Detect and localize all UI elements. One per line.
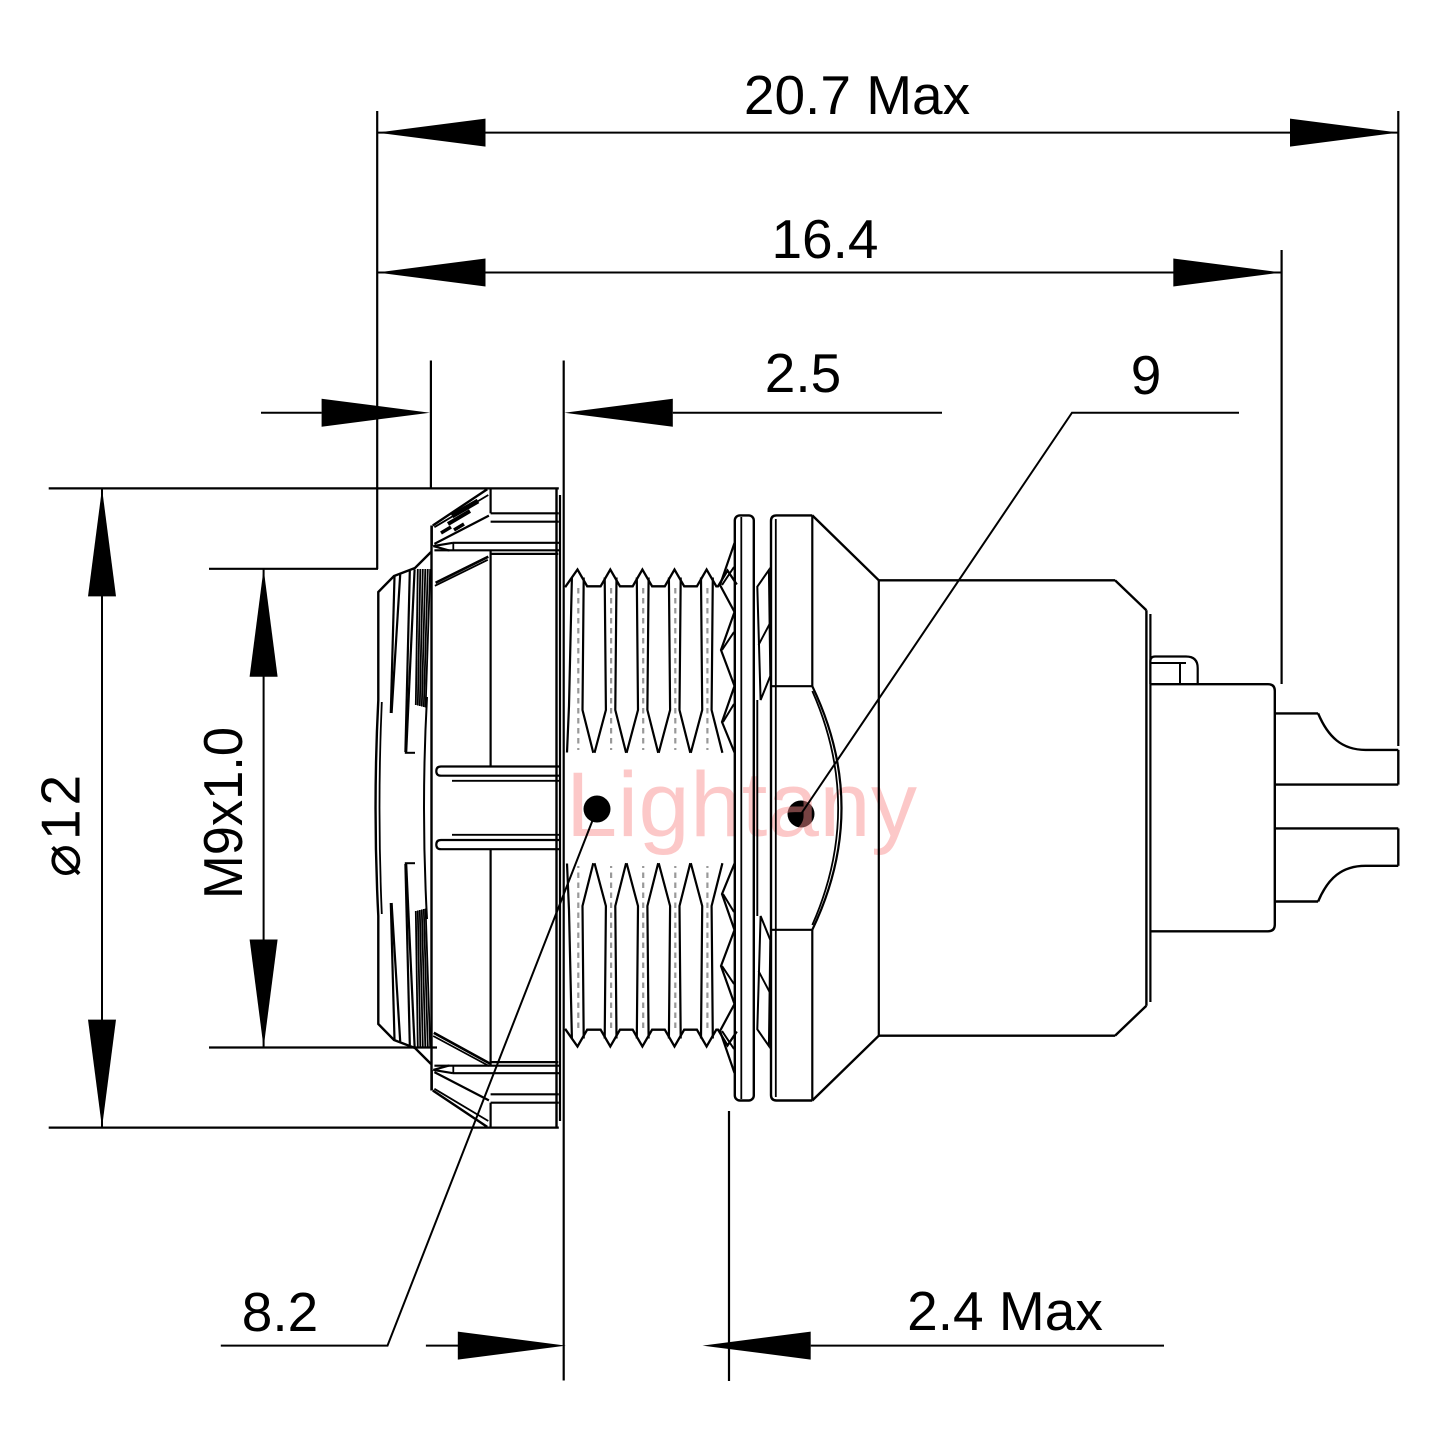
dimension label 2.5 — [765, 342, 841, 404]
dimension label 20.7 Max — [744, 64, 970, 126]
knurled collar — [376, 552, 431, 1064]
dimension 2.5 lines — [261, 361, 942, 1381]
svg-text:2.4 Max: 2.4 Max — [907, 1280, 1103, 1342]
watermark Lightany — [566, 754, 917, 856]
node leader-dot 9 — [788, 801, 815, 828]
lower wire lead — [1276, 828, 1398, 901]
svg-text:M9x1.0: M9x1.0 — [192, 727, 254, 899]
upper wire lead — [1276, 713, 1398, 784]
dimension 20.7 Max lines — [377, 111, 1398, 746]
svg-text:⌀12: ⌀12 — [30, 771, 92, 877]
node leader-dot 8.2 — [584, 796, 611, 823]
key tab — [1150, 657, 1197, 685]
leader line 9 — [801, 413, 1239, 814]
leader line 8.2 — [221, 809, 597, 1346]
dimension label 8.2 — [242, 1281, 318, 1343]
rear flange with bulge — [771, 515, 879, 1100]
insert box — [1150, 684, 1274, 931]
dimension label M9x1.0 — [192, 727, 254, 899]
dimension dia12 lines — [49, 488, 559, 1127]
rear body — [879, 580, 1151, 1035]
thread runout serration — [720, 543, 735, 1073]
serrated lock washer — [757, 570, 770, 1046]
dimension 16.4 lines — [377, 250, 1281, 684]
dimension label 2.4 Max — [907, 1280, 1103, 1342]
flat washer — [735, 515, 754, 1100]
coupling nut — [432, 489, 561, 1128]
dimension 2.4 Max lines — [426, 1111, 1164, 1381]
svg-text:8.2: 8.2 — [242, 1281, 318, 1343]
svg-text:20.7 Max: 20.7 Max — [744, 64, 970, 126]
dimension M9x1.0 lines — [209, 569, 437, 1048]
dimension label 9 — [1131, 344, 1162, 406]
svg-text:2.5: 2.5 — [765, 342, 841, 404]
thread M9x1.0 — [565, 570, 737, 1047]
svg-text:16.4: 16.4 — [771, 208, 878, 270]
dimension label dia 12 — [30, 771, 92, 877]
dimension label 16.4 — [771, 208, 878, 270]
svg-text:9: 9 — [1131, 344, 1162, 406]
